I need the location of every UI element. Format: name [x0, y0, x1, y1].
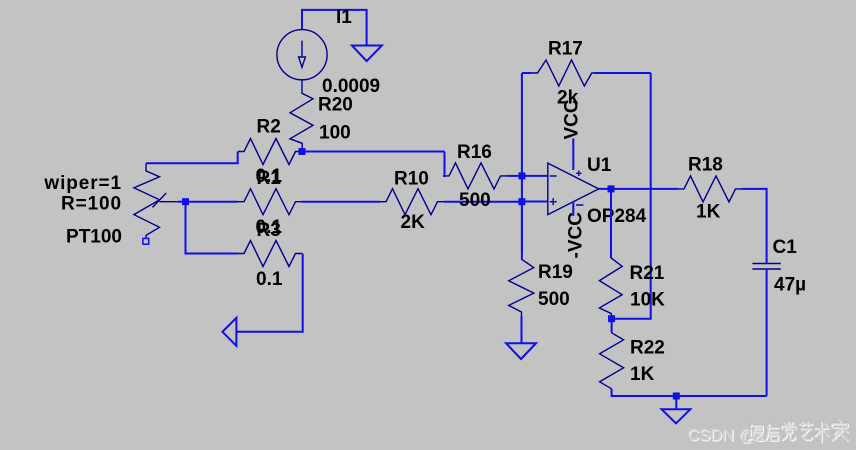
svg-text:R22: R22 — [630, 338, 665, 359]
wire R18 to C1 — [742, 189, 767, 264]
resistor R3 — [238, 241, 302, 267]
退 — [748, 425, 764, 441]
ground bottom — [662, 409, 691, 423]
wire opamp output — [599, 188, 678, 190]
党 — [783, 423, 797, 441]
wire R22 bottom row — [612, 389, 767, 396]
艺 — [798, 421, 811, 439]
svg-text:I1: I1 — [336, 7, 352, 28]
wire R3 to left ground — [236, 254, 302, 332]
resistor R1 — [238, 189, 302, 215]
家 — [832, 421, 848, 442]
术 — [814, 421, 827, 441]
退 — [749, 426, 765, 442]
svg-text:1K: 1K — [696, 202, 721, 223]
svg-text:R1: R1 — [257, 168, 282, 189]
艺 — [800, 423, 813, 441]
resistor R19 — [509, 259, 534, 316]
术 — [816, 423, 829, 443]
ground bottom stub — [675, 396, 677, 409]
svg-text:1K: 1K — [630, 364, 655, 385]
svg-text:PT100: PT100 — [66, 227, 122, 248]
ground left (rotated) — [222, 318, 236, 346]
艺 — [799, 422, 812, 440]
svg-text:47µ: 47µ — [774, 275, 806, 296]
svg-text:500: 500 — [538, 289, 570, 310]
svg-text:R=100: R=100 — [61, 194, 122, 215]
capacitor C1 — [752, 264, 780, 270]
svg-text:-VCC: -VCC — [566, 212, 587, 259]
pot open terminal — [143, 238, 149, 244]
svg-text:R18: R18 — [688, 155, 723, 176]
wire R19 riser — [521, 202, 523, 260]
resistor R2 — [238, 139, 302, 165]
后 — [765, 424, 777, 440]
wire C1 down to bottom row — [766, 269, 768, 396]
wire to opamp plus input — [522, 201, 548, 203]
junction node R20/R2 — [299, 148, 306, 155]
党 — [781, 421, 795, 439]
resistor R17 — [522, 60, 651, 86]
退 — [747, 424, 763, 440]
pot wiper — [153, 193, 179, 207]
svg-text:0.1: 0.1 — [256, 269, 283, 290]
potentiometer PT100 — [134, 163, 160, 238]
党 — [781, 421, 795, 439]
svg-text:R10: R10 — [394, 169, 429, 190]
svg-text:U1: U1 — [587, 155, 612, 176]
wire to opamp minus input — [522, 175, 548, 177]
wire VCC to opamp — [572, 138, 574, 170]
wire I1 top to ground — [302, 10, 367, 46]
wire R17 left riser — [521, 73, 523, 252]
svg-text:VCC: VCC — [562, 99, 583, 139]
watermark CSDN text — [687, 426, 756, 445]
svg-text:100: 100 — [319, 123, 351, 144]
junction node bottom ground — [673, 393, 680, 400]
junction node inverting input — [518, 172, 525, 179]
家 — [831, 419, 847, 440]
wire wiper to node — [178, 201, 186, 203]
resistor R21 — [599, 258, 622, 319]
ground R19 — [506, 343, 536, 359]
wire R16 to -node — [507, 175, 522, 177]
wire output down to R21 — [610, 189, 612, 258]
svg-text:2K: 2K — [401, 212, 426, 233]
svg-text:CSDN @: CSDN @ — [687, 426, 755, 444]
wire node to R1 — [186, 201, 239, 203]
wire R1 to R10 — [302, 201, 380, 203]
svg-text:10K: 10K — [630, 290, 665, 311]
家 — [831, 420, 847, 441]
svg-text:R16: R16 — [457, 142, 492, 163]
wire node down to R3 row — [186, 202, 239, 254]
svg-text:C1: C1 — [773, 237, 798, 258]
wire node to R16 — [443, 152, 445, 176]
junction node R21/R22 — [608, 315, 615, 322]
svg-text:R3: R3 — [257, 220, 281, 241]
wire R10 to +node — [444, 201, 522, 203]
wire node row y151 — [302, 151, 445, 153]
svg-text:R21: R21 — [630, 263, 665, 284]
watermark CJK glyphs (drawn strokes) — [747, 419, 848, 443]
wire R17 right riser — [612, 73, 651, 319]
svg-text:500: 500 — [459, 190, 491, 211]
junction node noninverting input — [518, 198, 525, 205]
wire R19 to ground — [521, 316, 523, 343]
wire pot-top to R2 — [146, 152, 238, 164]
svg-text:R2: R2 — [257, 117, 281, 138]
术 — [815, 422, 828, 442]
wire opamp -VCC pin — [572, 202, 574, 216]
svg-text:OP284: OP284 — [587, 206, 647, 227]
svg-text:R17: R17 — [548, 39, 583, 60]
current source I1 — [277, 30, 327, 80]
svg-text:R19: R19 — [538, 262, 573, 283]
junction node wiper — [182, 198, 189, 205]
后 — [767, 426, 779, 442]
resistor R20 — [290, 80, 313, 152]
resistor R18 — [678, 176, 742, 202]
ground top (near I1) — [352, 46, 382, 62]
svg-text:wiper=1: wiper=1 — [43, 173, 122, 194]
svg-text:R20: R20 — [318, 95, 353, 116]
resistor R22 — [611, 319, 613, 333]
后 — [766, 424, 778, 440]
op-amp U1 — [548, 163, 599, 215]
resistor R16 — [443, 163, 507, 189]
junction node output — [608, 185, 615, 192]
resistor R10 — [380, 189, 444, 215]
